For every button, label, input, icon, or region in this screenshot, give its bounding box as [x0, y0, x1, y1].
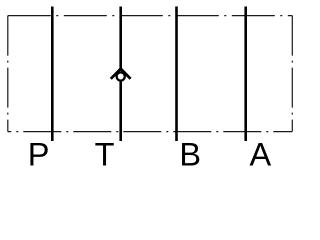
subplate enclosure bottom edge [8, 131, 293, 133]
check valve seat (V) [111, 69, 131, 79]
svg-text:A: A [249, 136, 271, 172]
svg-text:P: P [28, 136, 50, 172]
port line A [244, 7, 247, 142]
port line T lower segment [119, 82, 122, 141]
port line P [51, 7, 54, 142]
subplate enclosure right edge [291, 16, 293, 132]
subplate enclosure top edge [8, 15, 293, 17]
check valve ball [117, 72, 125, 80]
port line B [175, 7, 178, 142]
port line T upper segment [119, 7, 122, 70]
subplate enclosure left edge [7, 16, 9, 132]
svg-text:T: T [95, 136, 115, 172]
svg-text:B: B [179, 136, 201, 172]
